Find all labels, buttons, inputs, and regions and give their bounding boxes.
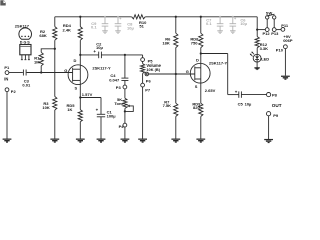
svg-text:51: 51 [139,24,144,29]
svg-text:18K: 18K [162,40,169,45]
svg-text:LED: LED [261,57,269,62]
svg-text:D: D [74,58,77,63]
svg-text:2.4K: 2.4K [63,27,72,32]
svg-text:1.57V: 1.57V [82,92,93,97]
svg-text:G: G [186,69,189,74]
svg-text:D: D [196,57,199,62]
svg-text:P13: P13 [271,31,279,36]
svg-text:P2: P2 [11,89,17,94]
svg-text:P12: P12 [263,31,271,36]
svg-text:100µ: 100µ [107,114,117,119]
svg-text:820: 820 [193,105,200,110]
svg-text:2SK117-Y: 2SK117-Y [92,65,111,70]
svg-text:S: S [75,86,78,91]
svg-text:G: G [24,40,27,44]
svg-text:68K: 68K [39,33,46,38]
svg-text:+: + [96,107,99,112]
svg-text:P6: P6 [146,78,152,83]
svg-text:P7: P7 [145,88,151,93]
svg-text:2.65V: 2.65V [205,88,216,93]
svg-text:10K (B): 10K (B) [146,67,160,72]
svg-text:P9: P9 [273,113,279,118]
svg-text:C5: C5 [238,102,244,107]
svg-text:0.01: 0.01 [22,83,31,88]
svg-text:IN: IN [4,77,8,82]
svg-text:0.047: 0.047 [109,77,120,82]
svg-text:0.1: 0.1 [206,21,212,26]
svg-text:1K: 1K [67,107,72,112]
svg-text:10µ: 10µ [96,45,103,50]
svg-text:2SK117-Y: 2SK117-Y [209,61,228,66]
svg-text:3.3K: 3.3K [260,46,269,51]
svg-text:10µ: 10µ [127,25,134,30]
svg-text:P1: P1 [4,65,10,70]
svg-text:P4: P4 [119,124,125,129]
svg-text:750: 750 [191,40,198,45]
svg-text:0.1: 0.1 [91,25,97,30]
svg-text:P11: P11 [281,23,289,28]
svg-text:10K: 10K [42,105,49,110]
svg-text:P3: P3 [116,85,122,90]
svg-text:S: S [195,84,198,89]
svg-text:Tone: Tone [114,101,124,106]
svg-text:10µ: 10µ [240,21,247,26]
svg-text:G: G [64,68,67,73]
svg-text:P8: P8 [272,93,278,98]
svg-text:OUT: OUT [272,103,282,108]
svg-text:SW: SW [266,10,273,15]
svg-text:7.5K: 7.5K [163,103,172,108]
svg-text:D: D [20,40,23,44]
svg-text:P10: P10 [276,48,284,53]
svg-text:006P: 006P [283,38,293,43]
svg-text:1M: 1M [34,60,40,65]
svg-text:10µ: 10µ [245,102,252,107]
svg-text:+: + [235,89,238,94]
